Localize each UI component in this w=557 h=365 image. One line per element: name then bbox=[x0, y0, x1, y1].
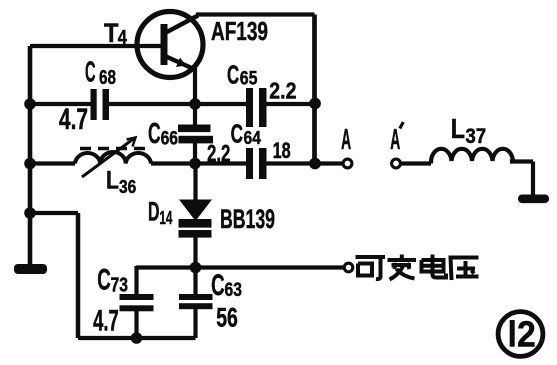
node dot emitter / C68-C65 row bbox=[189, 98, 201, 110]
wire D14 cathode to node bbox=[193, 237, 197, 268]
node dot left bus / L36 row bbox=[24, 158, 36, 170]
wire C66 top stub bbox=[193, 104, 197, 125]
capacitor C65 plates bbox=[246, 88, 253, 127]
node dot bottom rail / C73 bbox=[131, 332, 143, 344]
svg-text:65: 65 bbox=[240, 68, 258, 89]
figure number digit 1 (bar) bbox=[510, 320, 515, 347]
svg-text:66: 66 bbox=[161, 129, 178, 150]
svg-text:2.2: 2.2 bbox=[269, 78, 296, 104]
wire left jog vertical bbox=[76, 213, 81, 338]
svg-text:73: 73 bbox=[111, 275, 129, 297]
svg-text:14: 14 bbox=[159, 207, 172, 228]
ground right (L37) bbox=[518, 195, 549, 204]
svg-text:T: T bbox=[104, 18, 119, 48]
figure number circle 12 bbox=[498, 312, 543, 357]
svg-text:C: C bbox=[227, 59, 239, 89]
inductor L37 coil bbox=[431, 149, 513, 164]
wire C63 top stub bbox=[193, 268, 197, 295]
svg-text:18: 18 bbox=[273, 138, 291, 163]
wire emitter vertical bbox=[193, 68, 197, 104]
node dot C66 / L36-C64 row bbox=[189, 158, 201, 170]
svg-text:C: C bbox=[231, 121, 243, 149]
svg-text:D: D bbox=[148, 197, 160, 227]
ground left bbox=[14, 264, 47, 274]
svg-text:2: 2 bbox=[517, 314, 536, 355]
wire C73 bottom stub bbox=[134, 311, 138, 338]
svg-text:C: C bbox=[85, 56, 96, 88]
wire bottom rail bbox=[78, 336, 196, 340]
svg-text:A: A bbox=[390, 124, 400, 156]
wire C66 bottom stub bbox=[193, 142, 197, 164]
svg-text:68: 68 bbox=[99, 66, 116, 89]
svg-text:2.2: 2.2 bbox=[207, 141, 230, 168]
wire C73 top stub bbox=[134, 266, 138, 295]
wire row y=163.5 L36 to C64 bbox=[151, 161, 246, 165]
node dot left bus / C68 row bbox=[24, 98, 36, 110]
terminal variable-voltage open circle bbox=[344, 263, 353, 272]
node dot right bus / C64 row bbox=[309, 158, 321, 170]
svg-text:37: 37 bbox=[465, 125, 486, 148]
svg-text:BB139: BB139 bbox=[220, 204, 275, 234]
capacitor C64 plates bbox=[246, 148, 253, 179]
transistor T4 emitter arrowhead bbox=[176, 58, 186, 68]
capacitor C73 plates bbox=[120, 294, 154, 300]
wire variable-voltage row y=266.5 bbox=[136, 265, 344, 269]
transistor T4 circle bbox=[137, 12, 203, 78]
svg-text:AF139: AF139 bbox=[211, 16, 268, 46]
wire row y=104 C68 to C65 bbox=[109, 102, 246, 106]
wire right bus vertical bbox=[312, 15, 317, 164]
char ke (can) bbox=[356, 257, 386, 279]
svg-text:56: 56 bbox=[216, 303, 238, 333]
terminal A-prime open circle bbox=[392, 159, 401, 168]
svg-text:C: C bbox=[97, 264, 111, 297]
varactor diode D14 cathode bar bbox=[179, 219, 212, 228]
wire row y=163.5 C64 to terminal A bbox=[267, 161, 344, 165]
svg-text:4.7: 4.7 bbox=[93, 305, 119, 338]
transistor T4 collector diagonal bbox=[165, 16, 198, 34]
varactor diode D14 capacitor bar bbox=[179, 230, 212, 238]
wire left bus vertical bbox=[28, 46, 33, 264]
wire L37 to corner bbox=[510, 159, 533, 163]
node dot left bus / jog row bbox=[24, 207, 36, 219]
inductor L36 adjustment arrow bbox=[82, 138, 135, 177]
node dot right bus / C65 bbox=[309, 98, 321, 110]
inductor L36 dashed core bbox=[80, 147, 146, 150]
svg-text:64: 64 bbox=[244, 127, 262, 148]
wire C63 bottom stub bbox=[193, 309, 197, 338]
wire L37 ground drop bbox=[531, 162, 535, 197]
svg-text:63: 63 bbox=[225, 280, 242, 301]
svg-text:C: C bbox=[148, 118, 161, 150]
svg-text:36: 36 bbox=[119, 176, 136, 197]
wire left jog horizontal bbox=[30, 211, 78, 215]
label variable voltage (Chinese) bbox=[356, 255, 479, 281]
svg-text:A: A bbox=[341, 124, 351, 156]
svg-text:4.7: 4.7 bbox=[59, 103, 88, 136]
svg-text:C: C bbox=[211, 269, 225, 302]
char bian (change) bbox=[388, 255, 417, 280]
transistor T4 emitter diagonal with arrow bbox=[165, 56, 196, 70]
wire row y=104 left of C68 bbox=[28, 102, 91, 106]
wire base lead T4 bbox=[30, 44, 163, 48]
wire row y=104 C65 to right bus bbox=[267, 102, 315, 106]
node dot D14 / variable-voltage row bbox=[190, 262, 202, 274]
terminal A open circle bbox=[343, 159, 352, 168]
char ya (pressure) bbox=[451, 258, 479, 281]
svg-text:L: L bbox=[451, 113, 465, 144]
inductor L36 coil bbox=[75, 152, 151, 163]
svg-text:4: 4 bbox=[118, 26, 128, 49]
capacitor C66 plates bbox=[178, 125, 211, 133]
wire top rail bbox=[196, 12, 315, 16]
varactor diode D14 triangle bbox=[179, 200, 212, 222]
wire A-prime to L37 bbox=[400, 161, 431, 165]
capacitor C63 plates bbox=[179, 294, 213, 300]
char dian (electric) bbox=[422, 255, 447, 278]
svg-text:L: L bbox=[106, 167, 119, 195]
transistor T4 base bar bbox=[161, 24, 168, 65]
capacitor C68 plates bbox=[91, 89, 97, 120]
wire D14 anode stub bbox=[193, 164, 197, 202]
wire row y=163.5 left bus to L36 bbox=[28, 161, 75, 165]
